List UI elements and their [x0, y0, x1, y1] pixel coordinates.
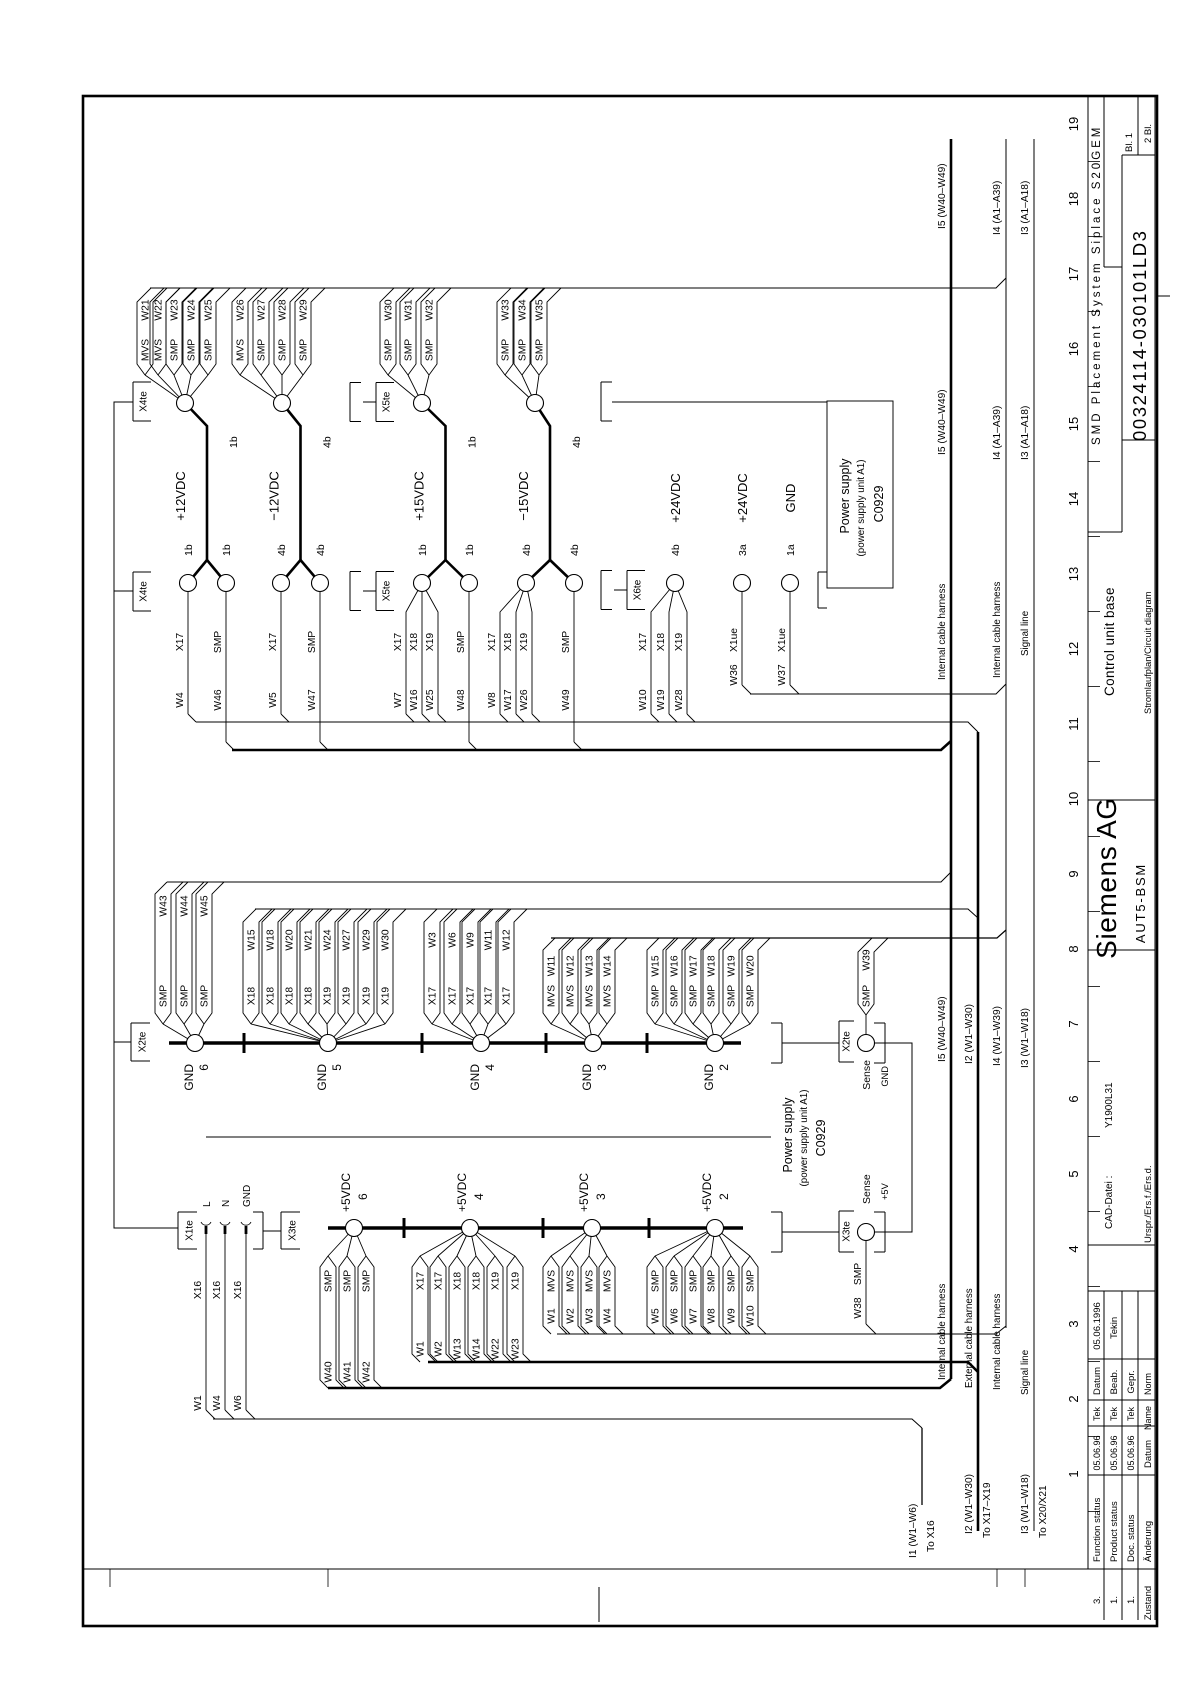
svg-text:W1: W1 [547, 1308, 558, 1324]
svg-text:X19: X19 [674, 633, 685, 652]
svg-text:W9: W9 [466, 932, 477, 948]
svg-text:W41: W41 [343, 1361, 354, 1382]
svg-text:6: 6 [197, 1064, 211, 1071]
svg-text:Internal cable harness: Internal cable harness [937, 584, 948, 680]
svg-text:1b: 1b [228, 436, 240, 448]
svg-text:SMP: SMP [746, 985, 757, 1007]
svg-text:W25: W25 [425, 689, 436, 710]
svg-text:−12VDC: −12VDC [267, 471, 282, 521]
svg-text:12: 12 [1066, 642, 1081, 656]
svg-text:3.: 3. [1092, 1596, 1103, 1604]
svg-text:MVS: MVS [585, 985, 596, 1007]
svg-text:W36: W36 [729, 664, 740, 685]
svg-text:SMP: SMP [518, 339, 529, 361]
svg-text:SMP: SMP [187, 339, 198, 361]
svg-text:11: 11 [1066, 717, 1081, 731]
svg-text:2: 2 [717, 1193, 731, 1200]
svg-text:GND: GND [783, 484, 798, 513]
svg-text:I4 (W1–W39): I4 (W1–W39) [992, 1006, 1003, 1066]
svg-text:SMP: SMP [670, 985, 681, 1007]
svg-text:X4te: X4te [139, 581, 150, 602]
svg-text:X19: X19 [491, 1272, 502, 1291]
svg-text:X18: X18 [656, 633, 667, 652]
svg-text:SMP: SMP [384, 339, 395, 361]
svg-text:Datum: Datum [1092, 1367, 1103, 1395]
svg-text:MVS: MVS [603, 1270, 614, 1292]
svg-text:2: 2 [1066, 1395, 1081, 1402]
svg-text:05.06.96: 05.06.96 [1109, 1435, 1119, 1470]
svg-text:W17: W17 [503, 689, 514, 710]
svg-text:4b: 4b [521, 544, 533, 556]
svg-text:Tekin: Tekin [1109, 1317, 1120, 1339]
svg-text:+12VDC: +12VDC [173, 471, 188, 521]
svg-text:W43: W43 [159, 895, 170, 916]
svg-text:X18: X18 [304, 987, 315, 1006]
svg-text:Internal cable harness: Internal cable harness [992, 582, 1003, 678]
svg-text:I3 (W1–W18): I3 (W1–W18) [1020, 1008, 1031, 1068]
svg-text:X19: X19 [425, 633, 436, 652]
svg-text:W8: W8 [707, 1308, 718, 1324]
svg-text:4b: 4b [569, 544, 581, 556]
svg-text:I4 (A1–A39): I4 (A1–A39) [992, 406, 1003, 460]
svg-text:X16: X16 [193, 1281, 204, 1300]
svg-text:W38: W38 [853, 1297, 864, 1318]
svg-text:W28: W28 [674, 689, 685, 710]
svg-text:1a: 1a [785, 544, 797, 556]
svg-text:MVS: MVS [566, 985, 577, 1007]
svg-text:−15VDC: −15VDC [516, 471, 531, 521]
svg-text:W16: W16 [409, 689, 420, 710]
svg-text:SMP: SMP [425, 339, 436, 361]
svg-text:SMP: SMP [456, 631, 467, 653]
svg-text:X18: X18 [247, 987, 258, 1006]
svg-text:Änderung: Änderung [1143, 1521, 1154, 1562]
svg-text:3: 3 [595, 1064, 609, 1071]
svg-text:X17: X17 [428, 987, 439, 1006]
svg-text:Function status: Function status [1092, 1497, 1103, 1562]
svg-text:W40: W40 [324, 1361, 335, 1382]
svg-text:MVS: MVS [603, 985, 614, 1007]
svg-text:14: 14 [1066, 492, 1081, 506]
svg-text:W4: W4 [175, 692, 186, 708]
svg-text:MVS: MVS [547, 985, 558, 1007]
svg-text:+5VDC: +5VDC [700, 1173, 714, 1212]
svg-text:W19: W19 [656, 689, 667, 710]
svg-text:I5 (W40–W49): I5 (W40–W49) [937, 389, 948, 455]
svg-text:4b: 4b [322, 436, 334, 448]
svg-text:W6: W6 [670, 1308, 681, 1324]
svg-text:X3te: X3te [288, 1220, 299, 1241]
svg-text:W16: W16 [670, 955, 681, 976]
svg-text:16: 16 [1066, 342, 1081, 356]
svg-text:W5: W5 [268, 692, 279, 708]
svg-text:SMP: SMP [159, 985, 170, 1007]
svg-text:W22: W22 [154, 299, 165, 320]
svg-text:To X16: To X16 [926, 1520, 937, 1552]
svg-text:GND: GND [702, 1064, 716, 1091]
svg-text:W20: W20 [285, 929, 296, 950]
svg-text:X17: X17 [393, 633, 404, 652]
svg-text:W3: W3 [585, 1308, 596, 1324]
svg-text:05.06.1996: 05.06.1996 [1092, 1302, 1103, 1350]
svg-text:3a: 3a [737, 544, 749, 556]
svg-text:X19: X19 [362, 987, 373, 1006]
svg-text:W11: W11 [547, 956, 558, 977]
svg-text:W19: W19 [727, 955, 738, 976]
svg-text:W3: W3 [428, 932, 439, 948]
svg-text:CAD-Datei :: CAD-Datei : [1104, 1176, 1115, 1229]
svg-text:W18: W18 [266, 929, 277, 950]
svg-text:Tek: Tek [1126, 1407, 1136, 1422]
svg-text:W49: W49 [561, 689, 572, 710]
svg-text:X1ue: X1ue [729, 628, 740, 652]
svg-text:1b: 1b [467, 436, 479, 448]
svg-text:X17: X17 [175, 633, 186, 652]
svg-text:X19: X19 [342, 987, 353, 1006]
svg-text:W10: W10 [746, 1305, 757, 1326]
svg-text:W8: W8 [487, 692, 498, 708]
svg-text:W34: W34 [518, 299, 529, 320]
svg-text:Tek: Tek [1092, 1407, 1102, 1422]
svg-text:W6: W6 [233, 1395, 244, 1411]
svg-text:4b: 4b [276, 544, 288, 556]
svg-text:X1te: X1te [185, 1220, 196, 1241]
svg-text:W27: W27 [342, 929, 353, 950]
svg-text:+5V: +5V [880, 1182, 890, 1200]
svg-text:+24VDC: +24VDC [735, 473, 750, 523]
svg-text:SMP: SMP [707, 985, 718, 1007]
svg-text:SMP: SMP [746, 1270, 757, 1292]
svg-text:Urspr./Ers.f./Ers.d.: Urspr./Ers.f./Ers.d. [1143, 1165, 1154, 1243]
svg-text:N: N [221, 1200, 232, 1207]
svg-text:W12: W12 [502, 929, 513, 950]
svg-text:SMP: SMP [307, 631, 318, 653]
svg-text:X16: X16 [233, 1281, 244, 1300]
svg-text:1b: 1b [417, 544, 429, 556]
svg-text:Name: Name [1143, 1406, 1153, 1430]
svg-text:X18: X18 [453, 1272, 464, 1291]
svg-text:W25: W25 [204, 299, 215, 320]
svg-text:W4: W4 [603, 1308, 614, 1324]
svg-text:To X20/X21: To X20/X21 [1038, 1485, 1049, 1538]
svg-text:5: 5 [330, 1064, 344, 1071]
svg-text:Power supply: Power supply [838, 458, 852, 534]
svg-text:W26: W26 [236, 299, 247, 320]
svg-text:W46: W46 [213, 689, 224, 710]
svg-text:Bl. 1: Bl. 1 [1124, 133, 1135, 152]
svg-text:W23: W23 [170, 299, 181, 320]
svg-text:10: 10 [1066, 792, 1081, 806]
svg-text:X17: X17 [487, 633, 498, 652]
svg-text:W11: W11 [484, 930, 495, 951]
svg-text:X3te: X3te [842, 1221, 853, 1242]
svg-text:18: 18 [1066, 192, 1081, 206]
svg-text:W24: W24 [323, 929, 334, 950]
svg-text:SMP: SMP [501, 339, 512, 361]
svg-text:W48: W48 [456, 689, 467, 710]
svg-text:I3 (A1–A18): I3 (A1–A18) [1020, 181, 1031, 235]
svg-text:19: 19 [1066, 117, 1081, 131]
svg-text:X6te: X6te [633, 579, 644, 600]
svg-text:X17: X17 [466, 987, 477, 1006]
svg-text:W31: W31 [404, 299, 415, 320]
svg-text:MVS: MVS [547, 1270, 558, 1292]
svg-text:To X17–X19: To X17–X19 [982, 1482, 993, 1538]
svg-text:SMP: SMP [180, 985, 191, 1007]
svg-text:Datum: Datum [1143, 1440, 1154, 1468]
svg-text:I5 (W40–W49): I5 (W40–W49) [937, 996, 948, 1062]
svg-text:SMP: SMP [213, 631, 224, 653]
svg-text:MVS: MVS [585, 1270, 596, 1292]
svg-text:I1 (W1–W6): I1 (W1–W6) [908, 1504, 919, 1558]
svg-text:I4 (A1–A39): I4 (A1–A39) [992, 181, 1003, 235]
svg-text:4b: 4b [315, 544, 327, 556]
svg-text:1.: 1. [1109, 1596, 1120, 1604]
svg-text:SMP: SMP [561, 631, 572, 653]
svg-text:SMP: SMP [299, 339, 310, 361]
svg-text:1b: 1b [221, 544, 233, 556]
svg-text:X1ue: X1ue [777, 628, 788, 652]
svg-text:X18: X18 [472, 1272, 483, 1291]
svg-text:2 Bl.: 2 Bl. [1143, 124, 1154, 143]
svg-text:X5te: X5te [382, 580, 393, 601]
svg-text:SMP: SMP [278, 339, 289, 361]
svg-text:1b: 1b [183, 544, 195, 556]
svg-text:W9: W9 [727, 1308, 738, 1324]
svg-text:W32: W32 [425, 299, 436, 320]
svg-text:X17: X17 [268, 633, 279, 652]
svg-text:Control unit base: Control unit base [1102, 587, 1117, 696]
svg-text:W33: W33 [501, 299, 512, 320]
svg-text:W21: W21 [304, 929, 315, 950]
svg-text:SMP: SMP [853, 1263, 864, 1285]
svg-text:W2: W2 [566, 1308, 577, 1324]
svg-text:(power supply unit A1): (power supply unit A1) [856, 460, 867, 557]
svg-text:Tek: Tek [1109, 1407, 1119, 1422]
svg-text:MVS: MVS [566, 1270, 577, 1292]
svg-text:SMP: SMP [362, 1270, 373, 1292]
svg-text:W1: W1 [193, 1395, 204, 1411]
svg-text:W39: W39 [862, 949, 873, 970]
svg-text:X4te: X4te [139, 391, 150, 412]
svg-text:(power supply unit A1): (power supply unit A1) [799, 1090, 810, 1187]
svg-text:Gepr.: Gepr. [1126, 1370, 1137, 1393]
svg-text:External cable harness: External cable harness [964, 1288, 975, 1388]
svg-text:X19: X19 [519, 633, 530, 652]
svg-text:W20: W20 [746, 955, 757, 976]
svg-text:W13: W13 [453, 1338, 464, 1359]
svg-text:MVS: MVS [141, 339, 152, 361]
svg-text:X2te: X2te [842, 1031, 853, 1052]
svg-text:X17: X17 [448, 987, 459, 1006]
svg-text:Beab.: Beab. [1109, 1370, 1120, 1395]
svg-text:GND: GND [880, 1066, 890, 1087]
svg-text:GND: GND [242, 1185, 253, 1207]
svg-text:Zustand: Zustand [1143, 1586, 1154, 1620]
svg-text:4: 4 [472, 1193, 486, 1200]
svg-text:SMP: SMP [727, 1270, 738, 1292]
svg-text:05.06.96: 05.06.96 [1126, 1435, 1136, 1470]
svg-text:W24: W24 [187, 299, 198, 320]
svg-text:W29: W29 [362, 929, 373, 950]
svg-text:7: 7 [1066, 1020, 1081, 1027]
svg-text:Doc. status: Doc. status [1126, 1514, 1137, 1562]
svg-text:X19: X19 [381, 987, 392, 1006]
svg-text:SMP: SMP [343, 1270, 354, 1292]
svg-text:X17: X17 [638, 633, 649, 652]
svg-text:1.: 1. [1126, 1596, 1137, 1604]
svg-text:SMP: SMP [862, 985, 873, 1007]
svg-text:X18: X18 [285, 987, 296, 1006]
svg-text:W1: W1 [416, 1341, 427, 1357]
svg-text:W14: W14 [603, 955, 614, 976]
svg-text:4b: 4b [670, 544, 682, 556]
svg-text:4: 4 [483, 1064, 497, 1071]
svg-text:X18: X18 [266, 987, 277, 1006]
svg-text:W6: W6 [448, 932, 459, 948]
svg-text:W18: W18 [707, 955, 718, 976]
svg-text:W13: W13 [585, 955, 596, 976]
svg-text:+5VDC: +5VDC [577, 1173, 591, 1212]
svg-text:C0929: C0929 [814, 1120, 828, 1157]
svg-text:X16: X16 [212, 1281, 223, 1300]
svg-text:9: 9 [1066, 870, 1081, 877]
svg-text:I5 (W40–W49): I5 (W40–W49) [937, 163, 948, 229]
svg-text:SMP: SMP [324, 1270, 335, 1292]
svg-text:05.06.96: 05.06.96 [1092, 1435, 1102, 1470]
svg-text:Y1900L31: Y1900L31 [1104, 1082, 1115, 1128]
svg-text:Product status: Product status [1109, 1501, 1120, 1562]
svg-text:W37: W37 [777, 664, 788, 685]
svg-text:W21: W21 [141, 299, 152, 320]
svg-text:6: 6 [1066, 1095, 1081, 1102]
svg-text:W14: W14 [472, 1338, 483, 1359]
svg-text:W29: W29 [299, 299, 310, 320]
svg-text:1b: 1b [464, 544, 476, 556]
svg-text:Internal cable harness: Internal cable harness [937, 1284, 948, 1380]
svg-text:13: 13 [1066, 567, 1081, 581]
svg-text:6: 6 [356, 1193, 370, 1200]
svg-text:W10: W10 [638, 689, 649, 710]
svg-text:SMP: SMP [707, 1270, 718, 1292]
svg-text:W44: W44 [180, 895, 191, 916]
svg-text:X17: X17 [434, 1272, 445, 1291]
svg-text:GND: GND [580, 1064, 594, 1091]
svg-text:3: 3 [594, 1193, 608, 1200]
svg-text:W28: W28 [278, 299, 289, 320]
svg-text:W5: W5 [651, 1308, 662, 1324]
svg-text:SMP: SMP [200, 985, 211, 1007]
svg-text:Siemens AG: Siemens AG [1091, 797, 1122, 959]
svg-text:17: 17 [1066, 267, 1081, 281]
svg-text:X5te: X5te [382, 391, 393, 412]
svg-text:Internal cable harness: Internal cable harness [992, 1294, 1003, 1390]
svg-text:W7: W7 [689, 1308, 700, 1324]
svg-text:W27: W27 [257, 299, 268, 320]
svg-text:X17: X17 [502, 987, 513, 1006]
svg-text:X18: X18 [409, 633, 420, 652]
svg-text:SMP: SMP [651, 985, 662, 1007]
svg-text:2: 2 [717, 1064, 731, 1071]
svg-text:00324114-030101LD3: 00324114-030101LD3 [1129, 229, 1150, 441]
svg-text:X17: X17 [484, 987, 495, 1006]
svg-text:SMP: SMP [689, 1270, 700, 1292]
svg-text:Sense: Sense [861, 1174, 873, 1204]
svg-text:5: 5 [1066, 1170, 1081, 1177]
svg-text:SMP: SMP [651, 1270, 662, 1292]
svg-text:W45: W45 [200, 895, 211, 916]
svg-text:W30: W30 [384, 299, 395, 320]
svg-text:W15: W15 [651, 955, 662, 976]
svg-text:W23: W23 [511, 1338, 522, 1359]
svg-text:X17: X17 [416, 1272, 427, 1291]
svg-text:MVS: MVS [154, 339, 165, 361]
svg-text:8: 8 [1066, 945, 1081, 952]
svg-text:4b: 4b [571, 436, 583, 448]
svg-text:Stromlaufplan/Circuit diagram: Stromlaufplan/Circuit diagram [1143, 591, 1153, 714]
svg-text:W42: W42 [362, 1361, 373, 1382]
svg-text:SMP: SMP [404, 339, 415, 361]
svg-text:I2 (W1–W30): I2 (W1–W30) [964, 1474, 975, 1534]
svg-text:SMP: SMP [257, 339, 268, 361]
svg-text:X2te: X2te [138, 1031, 149, 1052]
svg-text:W2: W2 [434, 1341, 445, 1357]
svg-text:Norm: Norm [1143, 1373, 1153, 1395]
svg-text:15: 15 [1066, 417, 1081, 431]
svg-text:Sense: Sense [861, 1060, 873, 1090]
svg-text:W4: W4 [212, 1395, 223, 1411]
svg-text:SMP: SMP [670, 1270, 681, 1292]
svg-text:+15VDC: +15VDC [412, 471, 427, 521]
svg-text:SMD Placement System Siplace S: SMD Placement System Siplace S20GEM [1091, 125, 1103, 445]
svg-text:Signal line: Signal line [1020, 1349, 1031, 1395]
svg-text:W30: W30 [381, 929, 392, 950]
svg-text:W22: W22 [491, 1338, 502, 1359]
svg-text:GND: GND [315, 1064, 329, 1091]
svg-text:+5VDC: +5VDC [455, 1173, 469, 1212]
svg-text:3: 3 [1066, 1320, 1081, 1327]
svg-text:L: L [202, 1201, 213, 1207]
svg-text:X18: X18 [503, 633, 514, 652]
svg-text:Power supply: Power supply [781, 1097, 795, 1173]
svg-text:W15: W15 [247, 929, 258, 950]
svg-text:X19: X19 [511, 1272, 522, 1291]
svg-text:MVS: MVS [236, 339, 247, 361]
svg-text:+24VDC: +24VDC [668, 473, 683, 523]
svg-text:C0929: C0929 [872, 486, 886, 523]
svg-text:1: 1 [1066, 1470, 1081, 1477]
svg-text:GND: GND [468, 1064, 482, 1091]
svg-text:W7: W7 [393, 692, 404, 708]
svg-text:Signal line: Signal line [1020, 610, 1031, 656]
svg-text:GND: GND [182, 1064, 196, 1091]
svg-text:SMP: SMP [170, 339, 181, 361]
svg-text:4: 4 [1066, 1245, 1081, 1252]
svg-text:W12: W12 [566, 955, 577, 976]
svg-text:I2 (W1–W30): I2 (W1–W30) [964, 1004, 975, 1064]
svg-text:AUT5-BSM: AUT5-BSM [1133, 863, 1148, 943]
svg-text:W35: W35 [535, 299, 546, 320]
svg-text:W26: W26 [519, 689, 530, 710]
svg-text:SMP: SMP [727, 985, 738, 1007]
svg-text:SMP: SMP [204, 339, 215, 361]
svg-text:SMP: SMP [689, 985, 700, 1007]
svg-text:W47: W47 [307, 689, 318, 710]
svg-text:+5VDC: +5VDC [339, 1173, 353, 1212]
svg-text:W17: W17 [689, 955, 700, 976]
svg-text:X19: X19 [323, 987, 334, 1006]
svg-text:SMP: SMP [535, 339, 546, 361]
